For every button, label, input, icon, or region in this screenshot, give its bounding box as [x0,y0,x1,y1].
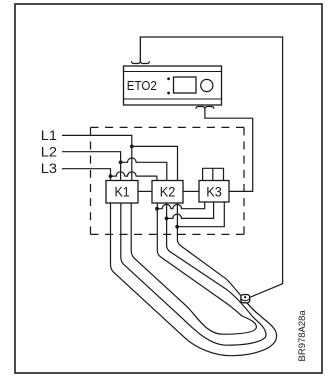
K2 output branch 1 to K3 bottom with hops [155,207,159,211]
contactor K1 [106,181,138,204]
svg-text:L3: L3 [41,160,57,176]
contactor K2 [152,181,183,204]
ETO2 top cable strain relief flare [132,61,150,63]
K2 output branch 3 to K3 bottom [175,225,179,229]
heating cable outer hairpin K1 to K2 [111,203,277,356]
svg-text:L2: L2 [41,143,57,159]
wire: ETO2 bottom to contactor coil line [205,109,253,192]
wire: ETO2 top sensor cable to right side down to sensor [140,37,282,298]
svg-text:BR978A28a: BR978A28a [297,310,308,362]
node L3 branch [109,174,113,178]
node L1 branch [130,145,134,149]
svg-text:K3: K3 [206,183,222,199]
controller ETO2 box [124,66,222,105]
wire L2 into K1 [62,152,121,181]
wire L1 branch to K2 [132,146,178,180]
ETO2 knob circle [201,79,213,91]
heating cable middle hairpin K1 to K2 [121,203,266,345]
coil control line K2-K3 [183,190,199,192]
svg-text:K2: K2 [160,183,176,199]
K2 output branch 2 to K3 bottom with hop [165,217,169,221]
svg-text:L1: L1 [41,127,57,143]
svg-text:K1: K1 [115,183,130,199]
coil control line K1-K2 [138,190,152,192]
dashed enclosure box [91,127,245,234]
ETO2 inner top line [124,71,222,73]
ETO2 inner bottom line [124,98,222,100]
K3 star bar structure on top [203,168,224,181]
node L2 branch [119,160,123,164]
wire L3 into K1 [62,169,111,181]
ETO2 bottom cable flare [196,107,214,109]
ETO2 led dots [167,77,170,80]
wire L1 into K1 and branch to K2 [62,135,132,180]
contactor K3 [199,181,229,203]
ETO2 display rect [174,77,197,93]
moisture/temperature sensor on cable [241,295,250,303]
heating cable inner hairpin K1 to K2 [131,203,256,334]
wire L2 branch to K2 with hop over L1 drop [121,158,167,181]
wire L3 branch to K2 with hops over L2 and L1 drops [111,172,157,181]
svg-text:ETO2: ETO2 [127,78,157,93]
